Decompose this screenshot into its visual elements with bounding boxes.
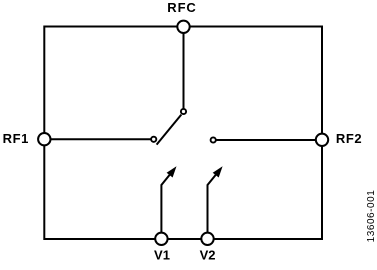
svg-text:RF2: RF2: [336, 131, 362, 146]
wire: RF1 to left throw contact: [44, 138, 153, 140]
switch throw contact RF1 side (small circle): [151, 137, 156, 142]
wire: V2 control stem: [208, 175, 216, 232]
terminal V2 (circle): [201, 233, 213, 245]
switch pole contact (small circle): [181, 109, 186, 114]
terminal V1 (circle): [155, 233, 167, 245]
wire: RFC pole stem: [183, 27, 185, 110]
wire: right throw contact to RF2: [213, 139, 322, 141]
wire: V1 control stem: [161, 175, 169, 232]
switch throw contact RF2 side (small circle): [211, 137, 216, 142]
terminal RF2 (circle): [316, 134, 328, 146]
terminal RF1 (circle): [38, 133, 50, 145]
block outline rectangle: [44, 27, 322, 240]
svg-text:RF1: RF1: [3, 131, 29, 146]
arrowhead V2: [213, 166, 223, 177]
terminal RFC (circle): [177, 21, 189, 33]
svg-text:RFC: RFC: [167, 0, 196, 15]
svg-text:V2: V2: [200, 248, 216, 263]
svg-text:V1: V1: [154, 248, 170, 263]
arrowhead V1: [167, 166, 177, 177]
switch arm SW1: [157, 115, 182, 145]
svg-text:13606-001: 13606-001: [366, 190, 377, 243]
